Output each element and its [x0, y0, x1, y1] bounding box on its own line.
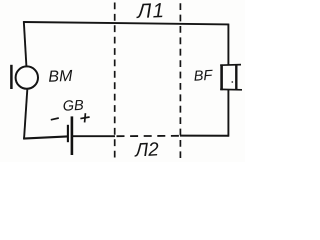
wire: bottom-left horizontal to battery minus plate: [23, 136, 67, 138]
dashed boundary line 1 (vertical, at terminal Л1/Л2 left): [114, 3, 116, 159]
svg-text:GB: GB: [62, 98, 84, 115]
telephone BF body rectangle: [220, 64, 242, 90]
wire: bottom horizontal from battery to line terminal: [72, 135, 115, 137]
battery GB long positive plate: [71, 116, 74, 155]
wire: left vertical, circle bottom down to bottom-left corner: [24, 90, 27, 140]
microphone BM membrane bar: [10, 65, 13, 89]
wire: bottom horizontal right section to corner: [180, 135, 229, 137]
svg-text:BF: BF: [193, 68, 213, 85]
dashed boundary line 2 (vertical, right): [179, 3, 181, 158]
microphone BM circle: [16, 66, 38, 88]
battery GB short negative plate: [67, 125, 69, 142]
svg-text:Л1: Л1: [135, 0, 166, 23]
wire: top horizontal from left corner to right corner: [23, 22, 229, 24]
dashed wire: transmission line bottom conductor Л2: [117, 135, 181, 137]
wire: left vertical, top corner down to microphone circle: [24, 21, 27, 66]
battery minus sign: [51, 118, 59, 120]
wire: right vertical from BF down to bottom corner: [227, 90, 229, 137]
battery plus sign: [80, 113, 89, 122]
svg-text:Л2: Л2: [133, 139, 160, 161]
wire: right vertical from top corner down to BF: [227, 24, 229, 65]
svg-text:BM: BM: [48, 68, 73, 86]
